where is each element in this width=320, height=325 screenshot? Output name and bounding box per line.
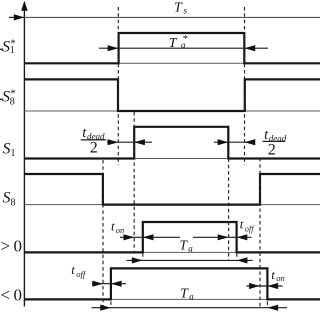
svg-text:> 0: > 0: [1, 237, 23, 256]
wire dashed tick x110.9: [110, 301, 112, 306]
svg-text:on: on: [116, 225, 125, 235]
node toff <0 label: [71, 262, 87, 279]
node toff >0 label: [240, 217, 255, 234]
svg-text:on: on: [276, 273, 285, 283]
svg-text:8: 8: [11, 198, 16, 209]
wire ton toff Ta >0 dimension: [120, 234, 252, 240]
node Ta >0 label: [180, 238, 194, 254]
svg-text:a: a: [188, 244, 193, 254]
svg-text:1: 1: [11, 148, 16, 159]
wire ton <0 dimension: [247, 283, 283, 289]
waveform S1: [24, 127, 320, 159]
svg-text:T: T: [174, 0, 183, 15]
wire dashed guide x244.5: [244, 7, 246, 165]
svg-text:2: 2: [90, 139, 98, 156]
wire Ts dimension line: [9, 14, 320, 20]
svg-text:S: S: [2, 89, 10, 106]
waveform S1*: [24, 33, 320, 63]
svg-text:t: t: [271, 267, 275, 282]
axis: [21, 1, 28, 307]
wire dashed guide x103: [102, 160, 104, 307]
svg-text:S: S: [2, 38, 10, 55]
wire S8* baseline: [24, 110, 320, 112]
wire dashed guide x260: [259, 158, 261, 307]
svg-text:*: *: [10, 37, 16, 49]
node ton >0 label: [111, 219, 124, 235]
node ton <0 label: [271, 267, 285, 283]
svg-text:t: t: [240, 217, 244, 232]
wire toff <0 dimension: [92, 281, 126, 287]
wire dashed tick x267.4: [266, 301, 268, 306]
wire >0 baseline: [24, 251, 320, 253]
node S1* label: [0, 37, 16, 56]
wire dashed guide x118.3: [117, 7, 119, 165]
node S8 label: [3, 189, 16, 208]
waveform S8*: [24, 79, 320, 111]
svg-text:t: t: [71, 262, 75, 277]
wire dashed tick x236.8: [236, 253, 238, 259]
wire <0 baseline: [24, 298, 320, 300]
svg-text:< 0: < 0: [1, 286, 23, 305]
svg-text:*: *: [10, 88, 16, 100]
wire dashed guide x134.2: [133, 112, 135, 253]
waveform <0: [24, 268, 320, 299]
svg-text:s: s: [184, 6, 188, 16]
node Ta <0 label: [180, 286, 194, 302]
wire Ta guide dimension line: [127, 257, 253, 263]
node Ta* label: [169, 33, 188, 51]
wire S1* baseline: [24, 62, 320, 64]
wire tdead/2 left dimension: [107, 139, 152, 145]
wire dashed guide x228.6: [228, 159, 230, 260]
node S1 label: [3, 140, 16, 158]
node tdead/2 right label: [263, 127, 287, 159]
svg-text:2: 2: [268, 142, 276, 159]
wire Ta* dimension line: [99, 45, 268, 51]
wire Ta <0 bottom dimension: [92, 305, 288, 311]
waveform >0: [24, 222, 320, 252]
node tdead/2 left label: [81, 125, 107, 156]
node Ts label: [174, 0, 188, 15]
wire tdead/2 right dimension: [214, 139, 255, 145]
wire dashed tick x142.8: [142, 253, 144, 259]
svg-text:t: t: [111, 219, 115, 234]
svg-text:a: a: [189, 292, 194, 302]
svg-text:S: S: [3, 189, 11, 206]
wire S1 baseline: [24, 158, 320, 160]
svg-text:S: S: [3, 140, 11, 157]
wire S8 baseline: [24, 204, 320, 206]
svg-text:*: *: [183, 33, 189, 45]
svg-text:T: T: [169, 36, 178, 51]
waveform S8: [24, 174, 320, 205]
node S8* label: [0, 88, 16, 108]
